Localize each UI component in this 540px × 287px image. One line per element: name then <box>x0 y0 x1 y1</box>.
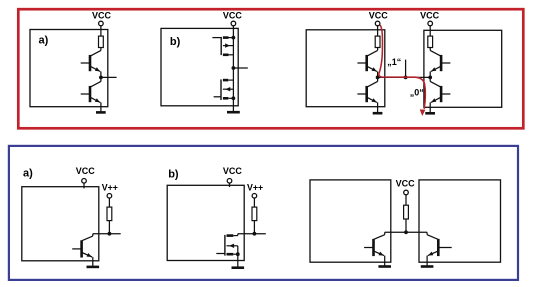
wire VCC to resistor pair <box>405 195 407 205</box>
short-circuit current path (red) <box>379 25 425 109</box>
node source junction b) <box>232 96 236 100</box>
wire resistor to node b) <box>253 221 255 234</box>
IC box left of wired pair <box>310 180 391 262</box>
IC box driver (left of pair) <box>306 30 385 107</box>
ground pairR <box>425 112 435 115</box>
wire VCC to resistor pairL <box>377 26 379 36</box>
n-MOSFET M2 bulk arrow <box>223 88 234 90</box>
node source bottom b) <box>236 252 240 256</box>
p-MOSFET M1 gate bar <box>220 37 222 55</box>
n-MOSFET open drain drain bar <box>227 234 234 237</box>
transistor Q1 pairR <box>440 55 443 71</box>
wire Q2 emitter to ground pairR <box>429 102 431 113</box>
resistor a <box>99 36 104 47</box>
IC box a) TTL <box>30 30 108 107</box>
transistor Q1 pairL <box>365 55 368 71</box>
n-MOSFET body-source link <box>237 246 239 254</box>
n-MOSFET open drain riser <box>237 234 239 236</box>
IC box driver (right of pair) <box>424 30 502 107</box>
node bus <box>404 230 408 234</box>
svg-text:VCC: VCC <box>92 10 112 20</box>
node VCC/source junction b) <box>232 36 236 40</box>
wire VCC to resistor pairR <box>429 26 431 36</box>
VCC terminal pairR <box>428 21 433 26</box>
wire emitter to ground Q pair left <box>384 256 386 267</box>
node output bottom b) <box>253 232 257 236</box>
resistor pairR <box>428 36 433 47</box>
wire resistor to Q1 pairR <box>429 48 431 51</box>
node output b) <box>232 66 236 70</box>
ground Q pair left <box>378 265 391 268</box>
n-MOSFET M2 gate lead <box>214 96 221 98</box>
wire VCC to resistor a <box>100 26 102 36</box>
p-MOSFET M1 source bar <box>223 36 229 39</box>
VCC terminal wired pair <box>404 190 409 195</box>
transistor Q2 pairL <box>365 86 368 102</box>
svg-text:V++: V++ <box>247 182 263 192</box>
VCC terminal b) <box>231 21 236 26</box>
node output pairR <box>428 76 432 80</box>
IC box b) CMOS <box>161 28 238 105</box>
node shared bus <box>404 76 408 80</box>
ground a <box>96 111 106 114</box>
svg-text:VCC: VCC <box>369 10 389 20</box>
VCC terminal bottom a) <box>82 179 87 184</box>
wire VCC pin bottom a) <box>83 183 85 188</box>
transistor Q1 a <box>89 55 92 71</box>
ground Q bottom a) <box>87 266 100 269</box>
svg-text:VCC: VCC <box>396 179 416 189</box>
wire emitter to ground Q bottom a) <box>92 257 94 267</box>
wire emitter to ground Q pair right <box>426 256 428 267</box>
IC box right of wired pair <box>419 180 501 262</box>
stub on shared node <box>405 60 407 78</box>
transistor Q2 a <box>89 86 92 102</box>
svg-text:b): b) <box>170 36 181 48</box>
n-MOSFET M2 gate bar <box>220 79 222 100</box>
pull-up resistor pair <box>404 205 409 219</box>
output stub a) <box>101 76 117 78</box>
transistor Q pair left <box>384 232 386 234</box>
svg-text:VCC: VCC <box>223 10 243 20</box>
wire output node pairL <box>377 72 379 82</box>
output wire b) <box>238 233 266 235</box>
node output bottom a) <box>108 232 112 236</box>
node output pairL <box>376 76 380 80</box>
IC box a) open collector <box>22 187 99 261</box>
wire Q2 emitter to ground pairL <box>377 102 379 113</box>
svg-text:a): a) <box>23 168 33 180</box>
svg-text:V++: V++ <box>102 182 118 192</box>
p-MOSFET M1 gate lead <box>212 37 221 39</box>
red frame (push-pull outputs) <box>18 9 523 128</box>
n-MOSFET M2 source bar <box>223 97 228 100</box>
wire VCC rail b) <box>232 26 234 112</box>
VCC terminal a <box>99 21 104 26</box>
n-MOSFET open drain source bar <box>227 253 234 256</box>
wire resistor to node a) <box>108 221 110 234</box>
ground bottom b) <box>232 266 245 269</box>
wire connecting outputs <box>378 76 431 78</box>
output stub b) <box>233 67 247 69</box>
svg-text:„0“: „0“ <box>410 87 424 97</box>
svg-text:VCC: VCC <box>223 166 243 176</box>
svg-text:VCC: VCC <box>420 10 440 20</box>
svg-text:„1“: „1“ <box>387 57 401 67</box>
pull-up resistor b) <box>252 207 257 221</box>
wire source to ground bottom b) <box>237 254 239 268</box>
transistor Q bottom a) <box>92 234 94 236</box>
wire resistor to Q1 pairL <box>377 48 379 51</box>
svg-text:VCC: VCC <box>76 166 96 176</box>
IC box b) open drain <box>167 185 244 260</box>
p-MOSFET M1 bulk arrow <box>223 45 234 47</box>
n-MOSFET open drain bulk arrow <box>227 245 238 247</box>
svg-text:a): a) <box>39 35 49 47</box>
shared bus wire <box>385 231 427 233</box>
wire resistor to bus <box>405 219 407 232</box>
resistor pairL <box>375 36 380 47</box>
VCC terminal pairL <box>375 21 380 26</box>
wire output node a <box>100 72 102 82</box>
transistor Q pair right <box>426 232 428 234</box>
ground b) <box>227 111 240 114</box>
svg-text:b): b) <box>168 168 179 180</box>
output wire a) <box>93 233 121 235</box>
p-MOSFET M1 drain bar <box>223 53 229 56</box>
ground pairL <box>373 112 383 115</box>
n-MOSFET open drain gate bar <box>224 235 226 256</box>
n-MOSFET open drain gate lead <box>216 253 225 255</box>
wire Q2 emitter to ground a <box>100 102 102 112</box>
wire resistor to Q1 a <box>100 48 102 51</box>
blue frame (open collector outputs) <box>9 146 518 280</box>
wire V++ to resistor a) <box>108 198 110 207</box>
V++ terminal a) <box>107 194 112 199</box>
wire V++ to resistor b) <box>253 198 255 207</box>
wire VCC pin bottom b) <box>229 183 231 187</box>
ground Q pair right <box>421 265 434 268</box>
pull-up resistor a) <box>107 207 112 221</box>
node output a <box>99 76 103 80</box>
transistor Q2 pairR <box>440 86 443 102</box>
VCC terminal bottom b) <box>227 179 232 184</box>
wire output node pairR <box>429 72 431 82</box>
V++ terminal b) <box>252 194 257 199</box>
red arrowhead <box>420 109 426 116</box>
n-MOSFET M2 drain bar <box>223 79 228 82</box>
